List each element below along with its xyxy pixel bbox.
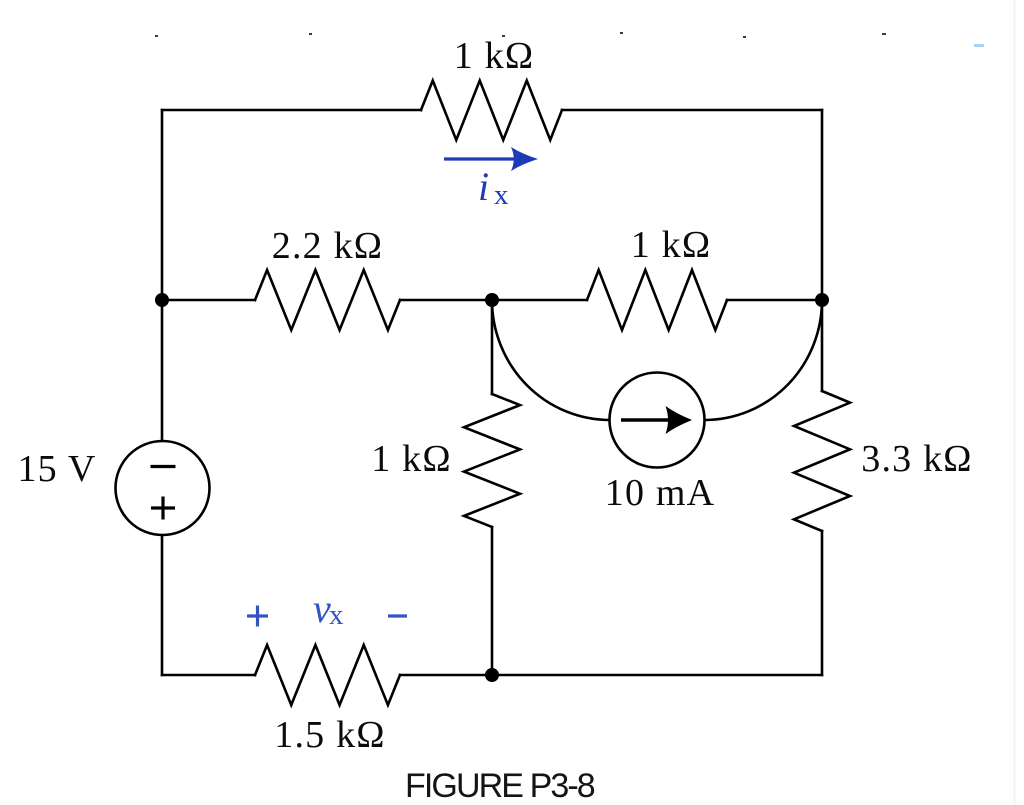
- svg-text:x: x: [494, 179, 509, 211]
- svg-text:1.5 kΩ: 1.5 kΩ: [274, 714, 385, 756]
- svg-text:1 kΩ: 1 kΩ: [454, 35, 535, 77]
- svg-text:FIGURE P3-8: FIGURE P3-8: [405, 767, 595, 805]
- svg-text:x: x: [329, 599, 344, 631]
- svg-text:3.3 kΩ: 3.3 kΩ: [861, 438, 972, 480]
- svg-text:1 kΩ: 1 kΩ: [371, 438, 452, 480]
- svg-text:i: i: [478, 164, 489, 209]
- svg-text:15 V: 15 V: [17, 448, 96, 490]
- svg-text:1 kΩ: 1 kΩ: [631, 224, 712, 266]
- svg-text:10 mA: 10 mA: [605, 472, 716, 514]
- svg-text:2.2 kΩ: 2.2 kΩ: [272, 225, 383, 267]
